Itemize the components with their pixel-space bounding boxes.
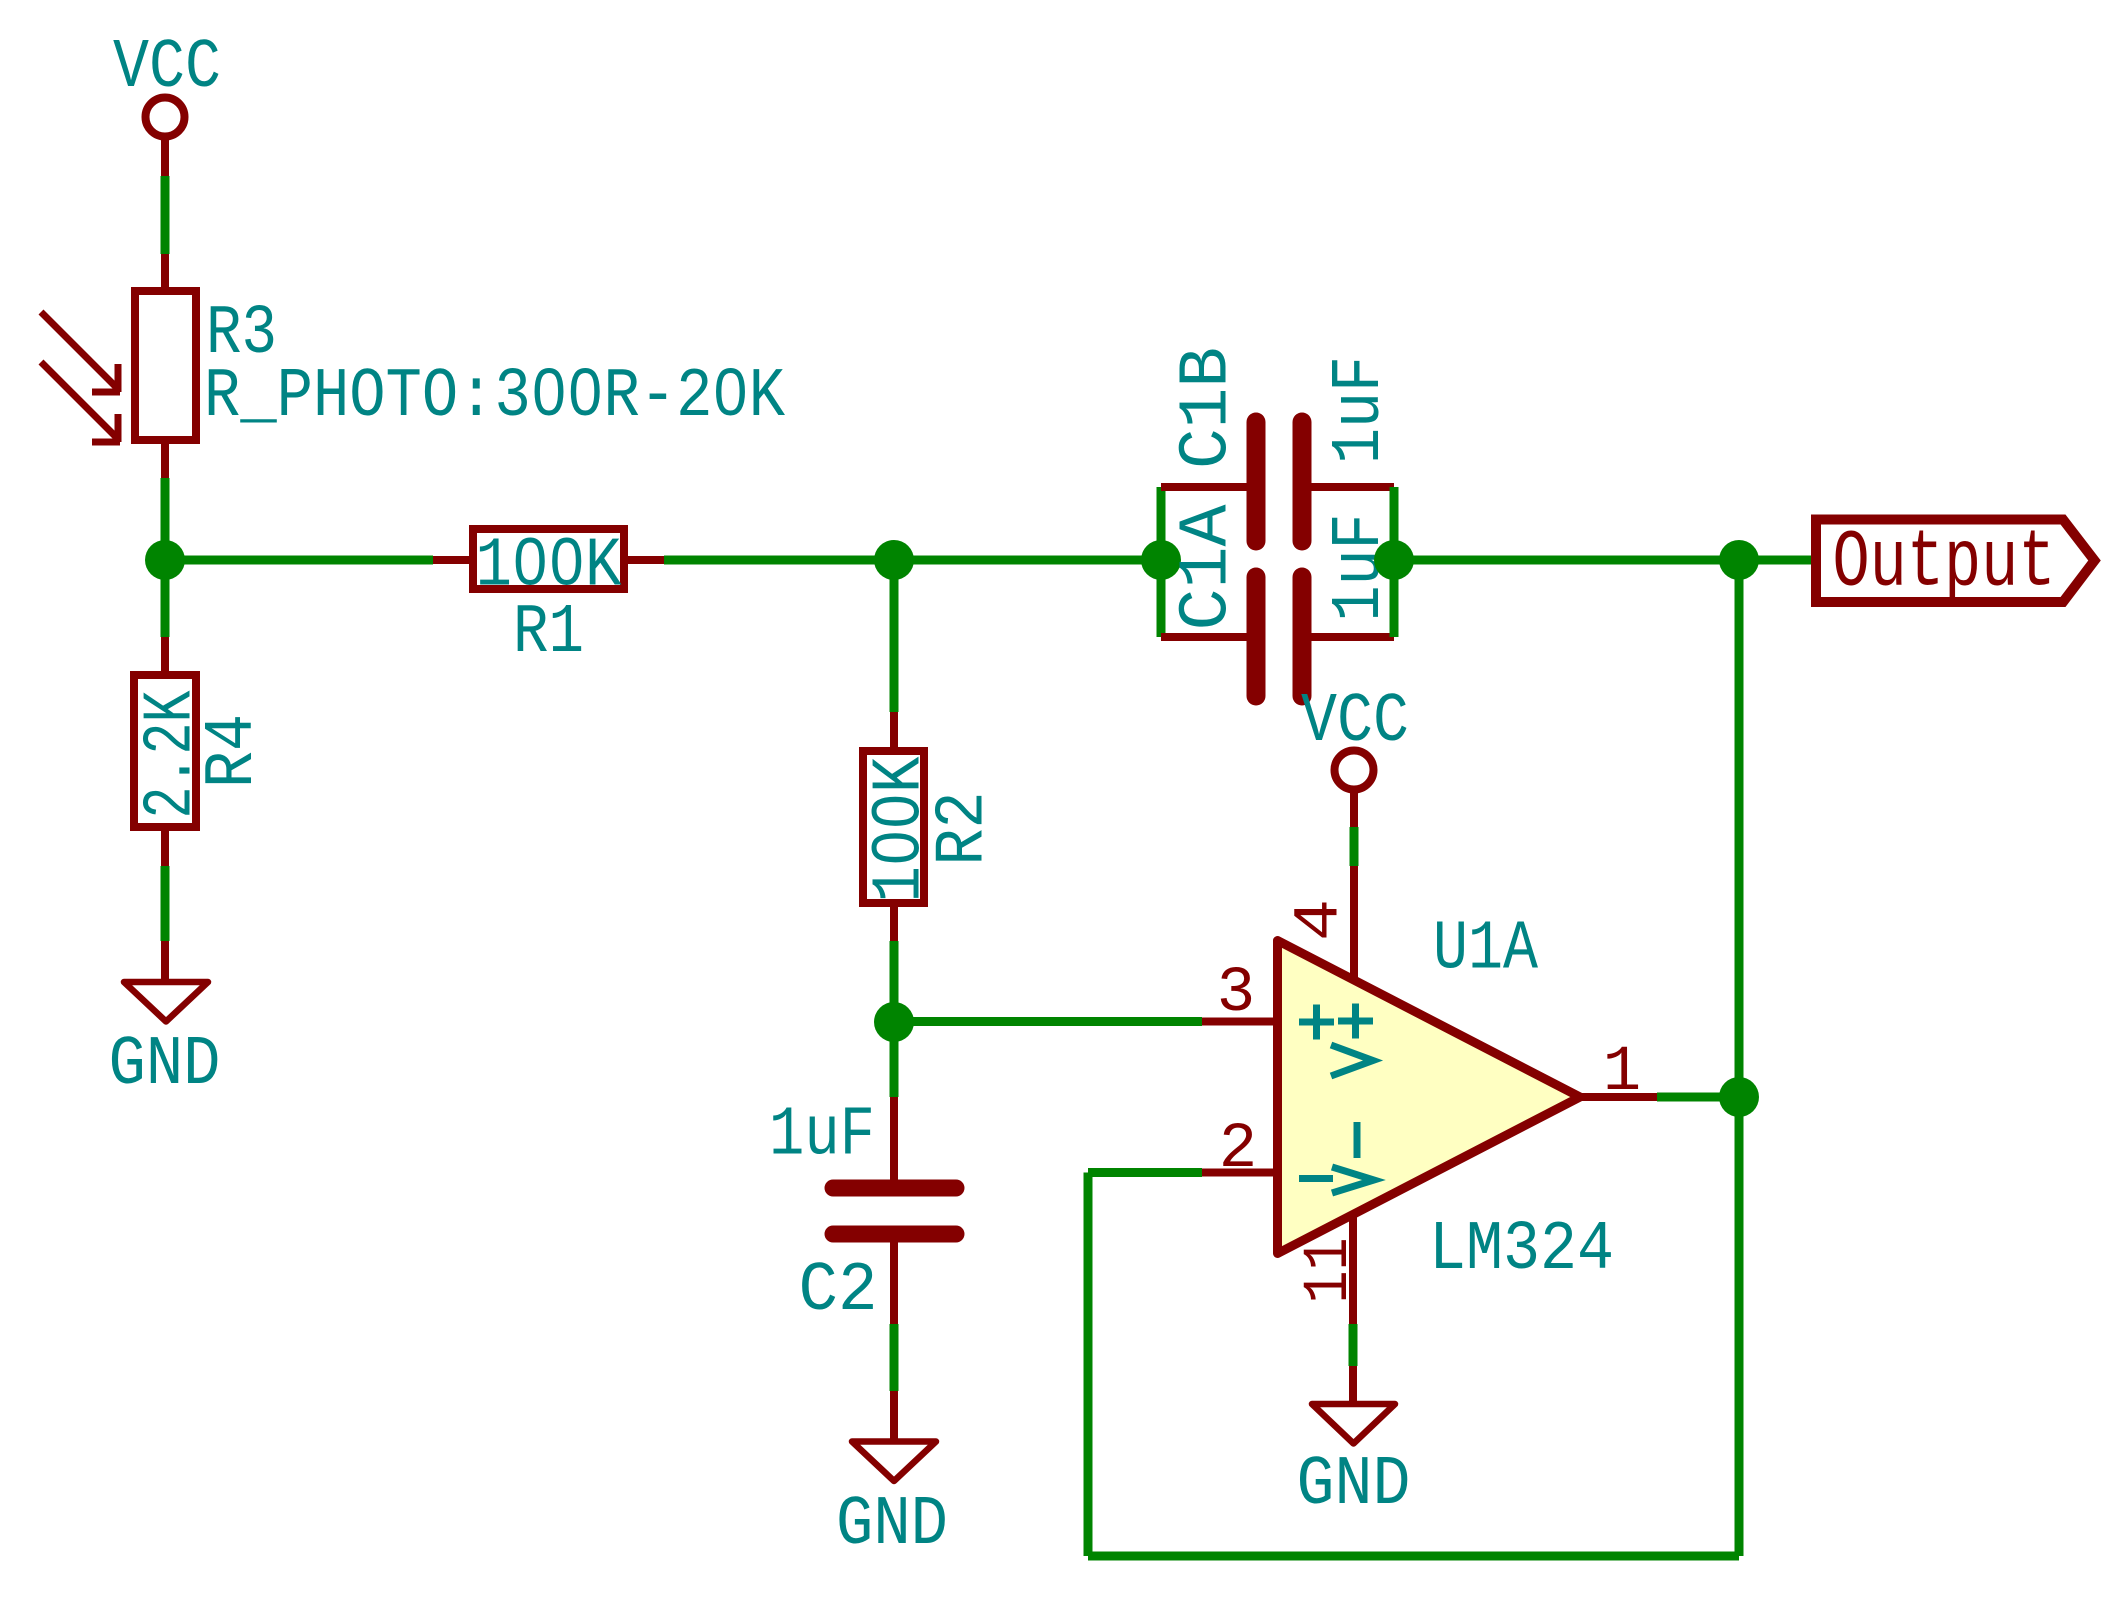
node D junction (C1 left) [1141, 540, 1181, 580]
feedback wire pin2 down [1084, 1173, 1093, 1557]
node E junction (C1 right) [1374, 540, 1414, 580]
wire C1 left rail [1157, 487, 1166, 637]
svg-text:U1A: U1A [1433, 911, 1538, 990]
ground symbol GND2 (below C2) [852, 1391, 936, 1481]
svg-text:R4: R4 [194, 714, 273, 788]
wire R3 to node A [161, 478, 170, 560]
op-amp - pin name [1299, 1175, 1333, 1182]
node C junction [874, 1002, 914, 1042]
feedback wire right vertical [1735, 560, 1744, 1556]
power symbol VCC (top left) [146, 98, 185, 177]
capacitor C1A (bottom unit) [1161, 577, 1394, 696]
capacitor C1B (top unit) [1161, 422, 1394, 541]
ground symbol GND3 (op-amp) [1312, 1366, 1395, 1444]
svg-text:Output: Output [1833, 519, 2056, 610]
svg-text:VCC: VCC [1301, 683, 1409, 762]
node G junction (output bus) [1719, 540, 1759, 580]
global label Output [1816, 520, 2095, 603]
wire node A down to R4 [161, 560, 170, 637]
node F junction (output) [1719, 1077, 1759, 1117]
svg-text:GND: GND [1297, 1446, 1411, 1525]
ground symbol GND1 (below R4) [124, 941, 208, 1022]
wire R4 to GND [161, 866, 170, 941]
wire node E to node G [1394, 556, 1739, 565]
wire node C down to C2 [890, 1022, 899, 1097]
svg-text:R_PHOTO:300R-20K: R_PHOTO:300R-20K [204, 358, 785, 437]
svg-text:LM324: LM324 [1429, 1211, 1614, 1290]
op-amp V+ pin name (rotated) [1331, 1004, 1373, 1077]
op-amp + pin name [1299, 1005, 1334, 1040]
wire R2 to node C [890, 941, 899, 1022]
svg-text:1uF: 1uF [1321, 356, 1400, 464]
svg-text:4: 4 [1285, 899, 1357, 941]
svg-text:GND: GND [836, 1486, 948, 1565]
svg-text:R2: R2 [925, 792, 1004, 866]
op-amp pin 11 to GND [1349, 1214, 1357, 1366]
wire node C to op-amp pin 3 [894, 1017, 1202, 1026]
wire node G to Output label [1739, 556, 1816, 565]
node B junction [874, 540, 914, 580]
wire node B down to R2 [890, 560, 899, 712]
photoresistor arrow 1 [41, 312, 120, 392]
op-amp pin 3 stub [1202, 1018, 1277, 1026]
svg-text:C1A: C1A [1169, 505, 1248, 631]
resistor R1 [433, 529, 664, 589]
resistor R2 [863, 712, 924, 941]
wire VCC to R3 [161, 176, 170, 254]
svg-text:C1B: C1B [1169, 347, 1248, 469]
feedback wire bottom [1088, 1552, 1739, 1561]
op-amp U1A LM324 [1278, 866, 1581, 1254]
resistor R4 [134, 637, 196, 866]
svg-text:VCC: VCC [113, 29, 221, 108]
op-amp V- pin name (rotated) [1332, 1122, 1374, 1193]
wire op-amp pin 2 (inverting input) [1088, 1169, 1277, 1177]
wire C1 right rail [1390, 487, 1399, 637]
wire op-amp pin 1 (output) [1580, 1093, 1739, 1101]
wire node B to C1 left [894, 556, 1161, 565]
wire node A to R1 [165, 556, 433, 565]
svg-text:GND: GND [109, 1026, 221, 1105]
svg-text:3: 3 [1217, 958, 1255, 1030]
svg-text:C2: C2 [799, 1252, 878, 1331]
wire C2 to GND [890, 1324, 899, 1391]
svg-text:R1: R1 [513, 594, 584, 673]
resistor R3 (photoresistor) [135, 254, 196, 478]
node A junction [145, 540, 185, 580]
photoresistor arrow 2 [41, 362, 120, 442]
svg-text:1uF: 1uF [769, 1097, 875, 1176]
wire R1 to node B [664, 556, 894, 565]
capacitor C2 [833, 1097, 956, 1324]
power symbol VCC (op-amp) [1335, 751, 1374, 828]
wire VCC to op-amp pin 4 [1350, 827, 1359, 866]
